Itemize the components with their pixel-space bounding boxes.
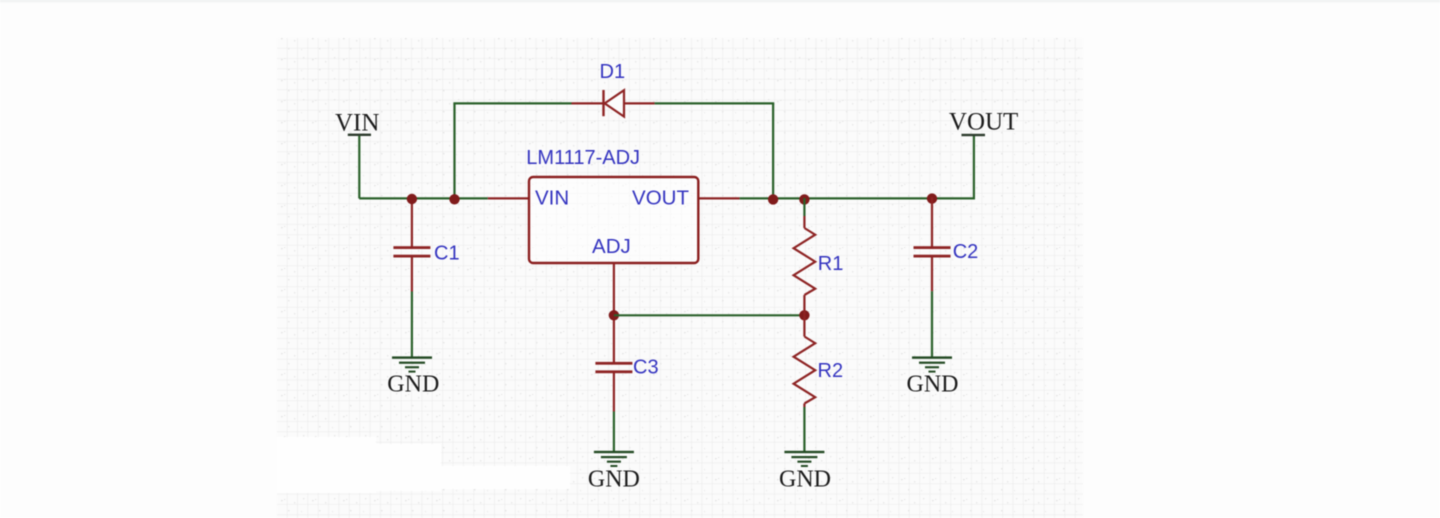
wire diode left lead (red) <box>572 102 604 104</box>
wire top-loop right vertical <box>772 103 774 198</box>
svg-text:GND: GND <box>387 371 439 397</box>
svg-text:C3: C3 <box>633 357 659 379</box>
svg-text:C1: C1 <box>434 242 460 264</box>
svg-text:R1: R1 <box>818 253 844 275</box>
junction node at right loop/bus <box>768 194 778 204</box>
svg-text:VOUT: VOUT <box>632 187 689 210</box>
junction node at top-loop/bus <box>449 194 459 204</box>
wire VIN pin lead (red) <box>488 197 529 199</box>
svg-text:R2: R2 <box>818 360 844 382</box>
wire C2 to ground <box>931 291 933 357</box>
svg-text:GND: GND <box>779 467 831 493</box>
wire main bus right (green) <box>740 197 974 199</box>
wire top-loop horizontal left <box>453 102 571 104</box>
capacitor C1 <box>393 197 459 292</box>
svg-text:GND: GND <box>588 467 640 493</box>
wire ADJ to R1/R2 divider <box>614 314 805 316</box>
ground GND (C2) <box>907 356 959 397</box>
ground GND (R2) <box>779 451 831 493</box>
svg-text:VOUT: VOUT <box>949 108 1018 135</box>
junction node at R1/R2 <box>799 310 809 320</box>
resistor R2 <box>794 315 843 407</box>
ground GND (C1) <box>387 356 439 397</box>
node VOUT port <box>949 108 1018 136</box>
diode D1 <box>600 61 626 117</box>
junction node at C2/bus <box>927 193 937 203</box>
wire diode right lead (red) <box>624 102 655 104</box>
wire VOUT pin lead (red) <box>698 197 739 199</box>
ground GND (C3) <box>588 451 640 493</box>
wire C1 to ground <box>411 292 413 358</box>
regulator U1 LM1117-ADJ <box>526 147 698 263</box>
svg-text:VIN: VIN <box>535 187 569 210</box>
svg-text:VIN: VIN <box>335 109 379 136</box>
junction node at ADJ <box>609 310 619 320</box>
wire top-loop left vertical <box>453 103 455 198</box>
resistor R1 <box>794 198 844 315</box>
svg-text:ADJ: ADJ <box>592 235 631 258</box>
capacitor C3 <box>595 357 658 412</box>
junction node at C1/bus <box>407 194 417 204</box>
node VIN port <box>335 109 379 136</box>
wire VOUT drop <box>973 136 975 200</box>
wire ADJ pin lead (red) <box>613 263 615 363</box>
svg-text:D1: D1 <box>600 61 626 83</box>
svg-text:GND: GND <box>907 371 959 397</box>
wire main bus left (green) <box>359 197 488 199</box>
svg-text:C2: C2 <box>953 241 979 263</box>
wire top-loop horizontal right <box>655 102 775 104</box>
capacitor C2 <box>914 197 979 291</box>
wire R2 to ground <box>803 407 805 452</box>
wire C3 to ground <box>613 412 615 452</box>
wire VIN drop <box>358 136 360 199</box>
svg-text:LM1117-ADJ: LM1117-ADJ <box>526 147 640 169</box>
junction node at R1/bus <box>799 194 809 204</box>
